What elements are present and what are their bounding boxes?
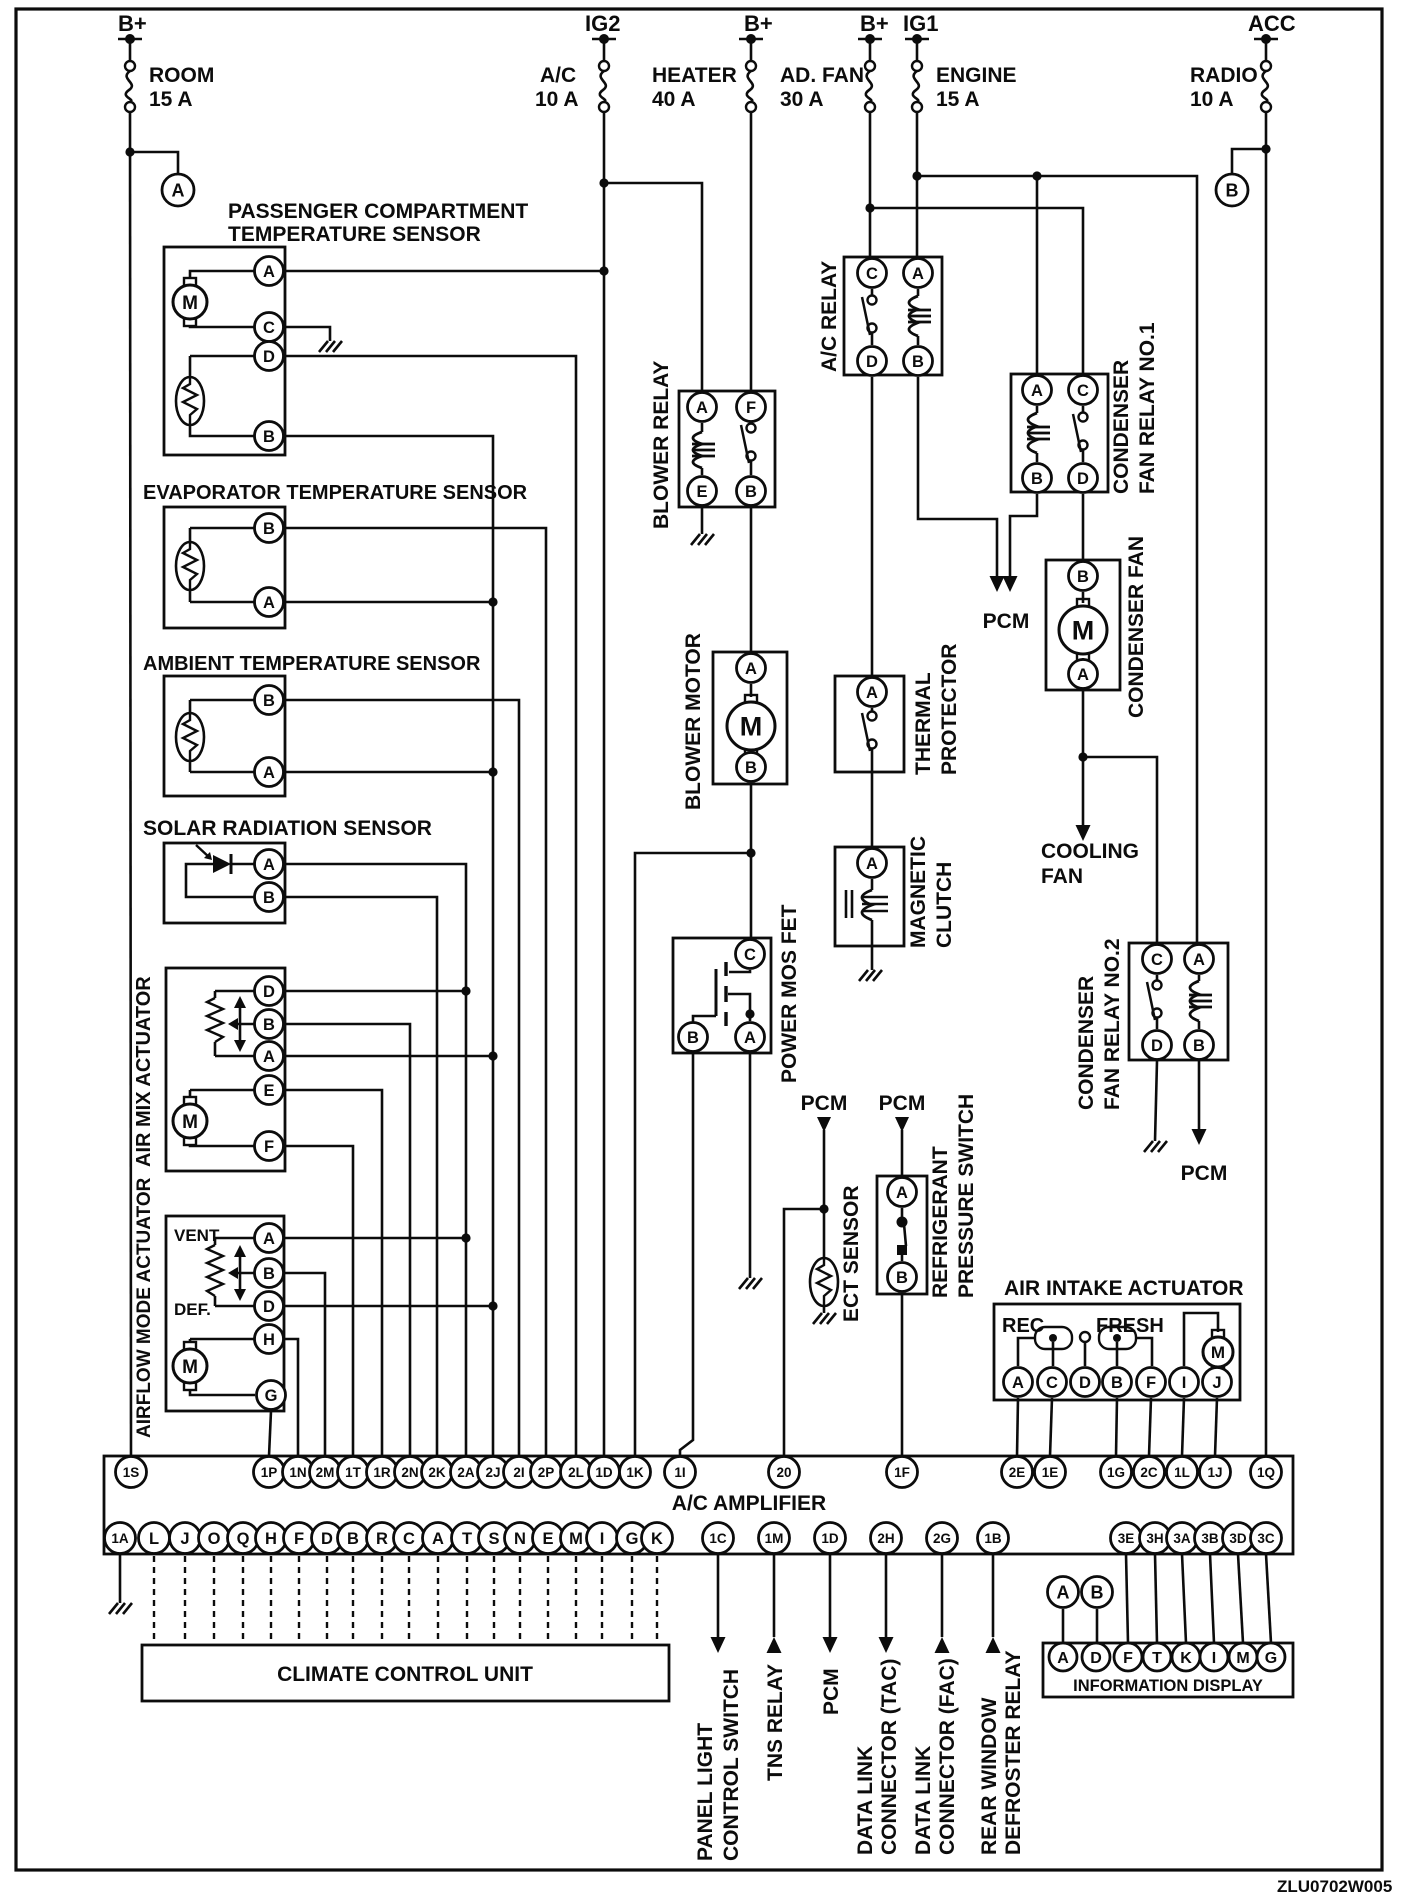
wire AD.FAN to condenser fan relay no.1 C <box>870 208 1083 374</box>
svg-text:B: B <box>745 759 757 777</box>
pin M A/C amplifier (bottom row) <box>561 1523 592 1554</box>
thermistor ECT sensor <box>810 1258 838 1306</box>
svg-text:AIRFLOW MODE ACTUATOR: AIRFLOW MODE ACTUATOR <box>134 1177 155 1438</box>
svg-text:2H: 2H <box>877 1531 894 1546</box>
svg-text:B: B <box>1077 568 1089 586</box>
node IG2 branch to blower relay <box>599 178 608 187</box>
wire motor to pin A <box>190 271 269 279</box>
node blower motor / 1K branch <box>746 848 755 857</box>
arrow from PCM (refrigerant) <box>895 1117 909 1132</box>
svg-text:A: A <box>1057 1582 1070 1602</box>
potentiometer air mix actuator <box>214 991 217 998</box>
pin 3H A/C amplifier (bottom row) <box>1140 1523 1171 1554</box>
switch condenser fan relay no.2 <box>1156 975 1159 981</box>
svg-text:1A: 1A <box>111 1531 129 1546</box>
wire blower motor B down to power MOS FET C <box>750 783 753 938</box>
wire branch to condenser fan relay no.2 C <box>1083 757 1157 943</box>
svg-text:A: A <box>1193 951 1205 969</box>
svg-text:R: R <box>376 1530 388 1548</box>
blower motor box <box>713 652 787 784</box>
svg-text:REC: REC <box>1002 1315 1044 1337</box>
FRESH position switch <box>1099 1327 1136 1349</box>
switch blower relay <box>750 423 753 424</box>
photodiode solar sensor <box>232 863 269 866</box>
pin 2E A/C amplifier (top row) <box>1002 1457 1033 1488</box>
pin A power MOS FET <box>736 1023 765 1052</box>
wire ACC down to pin 1Q <box>1265 112 1268 1456</box>
pin B A/C relay <box>904 347 933 376</box>
node air mix D junction <box>461 986 470 995</box>
svg-text:B: B <box>745 483 757 501</box>
A/C relay box <box>844 257 942 375</box>
svg-text:FAN RELAY NO.1: FAN RELAY NO.1 <box>1136 322 1159 494</box>
svg-text:PCM: PCM <box>1181 1162 1228 1185</box>
svg-text:EVAPORATOR TEMPERATURE SENSOR: EVAPORATOR TEMPERATURE SENSOR <box>143 482 528 504</box>
svg-text:2A: 2A <box>457 1465 475 1480</box>
svg-text:1S: 1S <box>123 1465 140 1480</box>
motor (aspirator) in passenger sensor <box>184 278 196 286</box>
svg-text:H: H <box>265 1530 277 1548</box>
node IG1 / condenser fan relay no.1 A <box>1032 171 1041 180</box>
node airflow A junction <box>461 1233 470 1242</box>
svg-text:E: E <box>263 1082 274 1100</box>
pin D A/C relay <box>858 347 887 376</box>
arrow to cooling fan <box>1082 820 1085 827</box>
svg-text:2L: 2L <box>568 1465 584 1480</box>
ground blower relay <box>691 534 714 545</box>
wire motor to pin C <box>190 325 269 327</box>
svg-text:AMBIENT TEMPERATURE SENSOR: AMBIENT TEMPERATURE SENSOR <box>143 653 481 675</box>
wire passenger C to ground <box>285 327 330 341</box>
pin 1N A/C amplifier (top row) <box>283 1457 314 1488</box>
svg-text:1G: 1G <box>1107 1465 1125 1480</box>
svg-text:A: A <box>1012 1374 1024 1392</box>
pin I information display <box>1200 1643 1228 1671</box>
svg-text:B: B <box>263 428 275 446</box>
coil A/C relay <box>917 289 920 296</box>
pin B condenser fan relay no.1 <box>1023 464 1052 493</box>
svg-text:A/C: A/C <box>540 64 576 87</box>
pin D condenser fan relay no.2 <box>1143 1031 1172 1060</box>
wire air intake C to pin 1E <box>1050 1398 1052 1456</box>
pin A magnetic clutch <box>858 849 887 878</box>
svg-text:1E: 1E <box>1042 1465 1059 1480</box>
wire airflow H to pin 1N <box>285 1339 298 1456</box>
svg-text:ROOM: ROOM <box>149 64 214 87</box>
wire branch to pin 1K <box>635 853 751 1456</box>
svg-text:A: A <box>696 399 708 417</box>
svg-text:B: B <box>687 1029 699 1047</box>
svg-text:3D: 3D <box>1229 1531 1247 1546</box>
pin A information display <box>1049 1643 1077 1671</box>
pin 1Q A/C amplifier (top row) <box>1251 1457 1282 1488</box>
svg-text:BLOWER MOTOR: BLOWER MOTOR <box>682 633 705 810</box>
pin C power MOS FET <box>736 940 765 969</box>
wire blower relay B to blower motor A <box>750 507 753 652</box>
ground passenger sensor <box>319 341 342 352</box>
svg-text:C: C <box>263 319 275 337</box>
wire to condenser fan relay no.1 A <box>1036 176 1039 374</box>
svg-text:M: M <box>1236 1650 1249 1667</box>
wires 3E-3C to information display <box>1126 1554 1128 1643</box>
arrow to PCM (A/C relay) <box>996 570 999 578</box>
wire CFR1 D to condenser fan B <box>1082 494 1085 560</box>
contact D air intake <box>1080 1332 1090 1342</box>
svg-text:K: K <box>1180 1650 1192 1667</box>
svg-text:PCM: PCM <box>820 1668 843 1715</box>
pin B blower motor <box>737 753 766 782</box>
wire 1C to panel light control switch <box>717 1554 720 1639</box>
pin 2I A/C amplifier (top row) <box>504 1457 535 1488</box>
pin 20 A/C amplifier (top row) <box>769 1457 800 1488</box>
wire airflow D to signal ground bus <box>285 1305 493 1308</box>
svg-text:D: D <box>1079 1374 1091 1392</box>
wire 1A to ground <box>119 1554 122 1603</box>
pin M information display <box>1229 1643 1257 1671</box>
svg-text:D: D <box>263 983 275 1001</box>
wire ambient A to signal ground bus <box>285 771 493 774</box>
pin D information display <box>1082 1643 1110 1671</box>
pin G A/C amplifier (bottom row) <box>617 1523 648 1554</box>
svg-text:A: A <box>172 180 185 200</box>
svg-text:2I: 2I <box>513 1465 524 1480</box>
pin B airflow mode <box>255 1259 284 1288</box>
svg-text:THERMAL: THERMAL <box>912 672 935 775</box>
dashed wires to climate control unit <box>153 1556 155 1645</box>
motor air intake actuator <box>1184 1313 1218 1366</box>
pin A evaporator sensor <box>255 588 284 617</box>
svg-text:2M: 2M <box>316 1465 335 1480</box>
air intake actuator box <box>994 1304 1240 1400</box>
svg-text:A: A <box>263 263 275 281</box>
ground A/C amplifier 1A <box>109 1603 132 1614</box>
svg-text:20: 20 <box>776 1465 791 1480</box>
svg-text:B: B <box>263 1016 275 1034</box>
svg-text:D: D <box>263 348 275 366</box>
pin 1P A/C amplifier (top row) <box>254 1457 285 1488</box>
pin 2P A/C amplifier (top row) <box>531 1457 562 1488</box>
svg-text:C: C <box>403 1530 415 1548</box>
svg-text:1R: 1R <box>373 1465 391 1480</box>
pin H airflow mode <box>255 1325 284 1354</box>
svg-text:D: D <box>1077 470 1089 488</box>
pin A blower motor <box>737 654 766 683</box>
pin 1E A/C amplifier (top row) <box>1035 1457 1066 1488</box>
svg-text:B: B <box>347 1530 359 1548</box>
svg-text:10 A: 10 A <box>1190 88 1234 111</box>
wire 1M from TNS relay <box>773 1554 776 1637</box>
wire solar B to pin 2K <box>285 897 437 1456</box>
wire 1D to PCM <box>829 1554 832 1639</box>
pin I air intake <box>1170 1368 1199 1397</box>
wire IG2 down to pin 1D <box>603 112 606 1456</box>
wire evaporator A to signal ground bus <box>285 601 493 604</box>
svg-text:F: F <box>1146 1374 1156 1392</box>
svg-text:1D: 1D <box>821 1531 839 1546</box>
pin B passenger sensor <box>255 422 284 451</box>
svg-text:DATA LINK: DATA LINK <box>854 1746 877 1855</box>
svg-text:A: A <box>263 856 275 874</box>
pin B A/C amplifier (bottom row) <box>338 1523 369 1554</box>
svg-text:F: F <box>746 399 756 417</box>
wire airflow B to pin 2M <box>285 1273 325 1456</box>
pin 1F A/C amplifier (top row) <box>887 1457 918 1488</box>
pin 2A A/C amplifier (top row) <box>451 1457 482 1488</box>
svg-text:E: E <box>542 1530 553 1548</box>
svg-text:N: N <box>514 1530 526 1548</box>
svg-text:D: D <box>321 1530 333 1548</box>
svg-text:M: M <box>182 1357 198 1378</box>
svg-text:F: F <box>294 1530 304 1548</box>
svg-text:B: B <box>912 353 924 371</box>
pin B air mix <box>255 1010 284 1039</box>
svg-text:T: T <box>462 1530 472 1548</box>
condenser fan relay no.1 box <box>1011 374 1108 492</box>
pin 3A A/C amplifier (bottom row) <box>1167 1523 1198 1554</box>
svg-text:1P: 1P <box>261 1465 278 1480</box>
coil magnetic clutch <box>871 879 874 890</box>
svg-text:C: C <box>1077 382 1089 400</box>
wire CFR2 D to ground <box>1155 1061 1157 1141</box>
pin 3C A/C amplifier (bottom row) <box>1251 1523 1282 1554</box>
node ACC branch to connector B <box>1261 144 1270 153</box>
svg-text:15 A: 15 A <box>936 88 980 111</box>
svg-text:A/C AMPLIFIER: A/C AMPLIFIER <box>672 1492 826 1515</box>
svg-text:A: A <box>866 855 878 873</box>
fuse RADIO 10A <box>1254 38 1278 41</box>
node air mix A junction <box>488 1051 497 1060</box>
svg-text:A: A <box>263 764 275 782</box>
wire air intake I to pin 1L <box>1182 1398 1184 1456</box>
wire A/C relay D to thermal protector <box>871 377 874 676</box>
magnetic clutch box <box>835 847 904 946</box>
svg-text:C: C <box>1046 1374 1058 1392</box>
svg-text:CONNECTOR (TAC): CONNECTOR (TAC) <box>878 1659 901 1855</box>
node IG2 / passenger sensor A <box>599 266 608 275</box>
wire A/C relay B to PCM <box>918 377 997 570</box>
wire passenger A to IG2 <box>285 270 604 273</box>
svg-text:AIR MIX ACTUATOR: AIR MIX ACTUATOR <box>133 976 155 1167</box>
svg-text:M: M <box>1211 1343 1225 1362</box>
svg-text:B: B <box>896 1269 908 1287</box>
REC position switch <box>1035 1327 1072 1349</box>
svg-text:1B: 1B <box>984 1531 1002 1546</box>
climate control unit box <box>142 1645 669 1701</box>
pin D air intake <box>1071 1368 1100 1397</box>
pin H A/C amplifier (bottom row) <box>256 1523 287 1554</box>
pin D air mix <box>255 977 284 1006</box>
wire to connector B <box>1232 149 1266 174</box>
thermistor passenger sensor <box>189 356 192 377</box>
svg-text:L: L <box>149 1530 159 1548</box>
evaporator temperature sensor box <box>164 507 285 628</box>
node ECT / pin 20 branch <box>819 1204 828 1213</box>
node junction ROOM/connector A <box>125 147 134 156</box>
wire branch to pin 20 <box>784 1209 824 1456</box>
pin D condenser fan relay no.1 <box>1069 464 1098 493</box>
pin 2G A/C amplifier (bottom row) <box>927 1523 958 1554</box>
pin B condenser fan <box>1069 562 1098 591</box>
pin 1B A/C amplifier (bottom row) <box>978 1523 1009 1554</box>
svg-text:G: G <box>626 1530 639 1548</box>
svg-text:AD. FAN: AD. FAN <box>780 64 864 87</box>
wire airflow G to pin 1P <box>269 1411 271 1456</box>
svg-text:2P: 2P <box>538 1465 555 1480</box>
pin S A/C amplifier (bottom row) <box>479 1523 510 1554</box>
pin A condenser fan <box>1069 660 1098 689</box>
node condenser fan branch <box>1078 752 1087 761</box>
wire IG1 to condenser fan relays <box>917 176 1197 943</box>
svg-text:PROTECTOR: PROTECTOR <box>938 644 961 775</box>
wire AD.FAN fuse to A/C relay C <box>869 112 872 257</box>
svg-text:D: D <box>1151 1037 1163 1055</box>
svg-text:REFRIGERANT: REFRIGERANT <box>929 1146 952 1298</box>
wire airflow A to 2A bus <box>285 1237 466 1240</box>
ground ECT sensor <box>813 1313 836 1324</box>
svg-text:ENGINE: ENGINE <box>936 64 1017 87</box>
svg-text:MAGNETIC: MAGNETIC <box>907 836 930 948</box>
potentiometer airflow mode actuator <box>214 1238 217 1245</box>
svg-text:IG2: IG2 <box>585 11 620 36</box>
pin F A/C amplifier (bottom row) <box>284 1523 315 1554</box>
wire solar A to pin 2A bus <box>285 864 466 1456</box>
svg-text:A: A <box>745 660 757 678</box>
svg-text:B+: B+ <box>744 11 773 36</box>
svg-text:40 A: 40 A <box>652 88 696 111</box>
svg-text:C: C <box>866 265 878 283</box>
pin B blower relay <box>737 477 766 506</box>
pin D airflow mode <box>255 1292 284 1321</box>
node ambient A junction <box>488 767 497 776</box>
pin A solar sensor <box>255 850 284 879</box>
svg-text:1T: 1T <box>345 1465 362 1480</box>
svg-text:1D: 1D <box>595 1465 613 1480</box>
svg-text:ZLU0702W005: ZLU0702W005 <box>1277 1877 1392 1896</box>
svg-text:C: C <box>1151 951 1163 969</box>
wiper arrow air mix <box>239 1004 242 1044</box>
svg-text:A: A <box>744 1029 756 1047</box>
pin 2K A/C amplifier (top row) <box>422 1457 453 1488</box>
svg-text:ACC: ACC <box>1248 11 1296 36</box>
wire air mix D to 2A bus <box>285 990 466 993</box>
svg-text:CONDENSER: CONDENSER <box>1075 976 1098 1110</box>
condenser fan box <box>1046 560 1120 690</box>
svg-text:3B: 3B <box>1201 1531 1219 1546</box>
pin N A/C amplifier (bottom row) <box>505 1523 536 1554</box>
svg-text:VENT: VENT <box>174 1226 220 1245</box>
svg-text:CONTROL SWITCH: CONTROL SWITCH <box>720 1669 743 1861</box>
pin Q A/C amplifier (bottom row) <box>228 1523 259 1554</box>
wire air mix A to signal ground bus <box>285 1055 493 1058</box>
fuse AD. FAN 30A <box>858 38 882 41</box>
pin F air mix <box>255 1132 284 1161</box>
wire condenser fan A down <box>1082 690 1085 820</box>
pin E blower relay <box>688 477 717 506</box>
pin G airflow mode <box>257 1381 286 1410</box>
fuse HEATER 40A <box>739 38 763 41</box>
motor airflow mode actuator <box>189 1339 192 1343</box>
pin F information display <box>1114 1643 1142 1671</box>
wire air mix F to pin 1T <box>285 1146 353 1456</box>
wire passenger D to pin 2L <box>285 356 576 1456</box>
svg-text:FAN RELAY NO.2: FAN RELAY NO.2 <box>1101 938 1124 1110</box>
pin 3B A/C amplifier (bottom row) <box>1195 1523 1226 1554</box>
wire IG1 fuse to A/C relay A <box>916 112 919 257</box>
pin F air intake <box>1137 1368 1166 1397</box>
ambient temperature sensor box <box>164 676 285 796</box>
svg-text:DEFROSTER RELAY: DEFROSTER RELAY <box>1002 1650 1025 1855</box>
svg-text:A: A <box>896 1184 908 1202</box>
svg-text:FAN: FAN <box>1041 865 1083 888</box>
svg-text:A: A <box>866 684 878 702</box>
svg-text:PCM: PCM <box>801 1092 848 1115</box>
svg-text:S: S <box>488 1530 499 1548</box>
svg-text:PRESSURE SWITCH: PRESSURE SWITCH <box>955 1094 978 1298</box>
airflow mode actuator box <box>166 1216 284 1411</box>
svg-text:TEMPERATURE SENSOR: TEMPERATURE SENSOR <box>228 223 481 246</box>
pin I A/C amplifier (bottom row) <box>587 1523 618 1554</box>
svg-text:3C: 3C <box>1257 1531 1275 1546</box>
svg-text:B: B <box>1111 1374 1123 1392</box>
svg-text:HEATER: HEATER <box>652 64 737 87</box>
wire CFR1 B to PCM <box>1010 494 1037 570</box>
svg-text:3E: 3E <box>1118 1531 1135 1546</box>
pin A ambient sensor <box>255 758 284 787</box>
svg-text:B: B <box>263 520 275 538</box>
svg-text:G: G <box>1265 1650 1277 1667</box>
wire air mix B to pin 2N <box>285 1024 410 1456</box>
motor condenser fan <box>1082 592 1085 603</box>
pin F blower relay <box>737 393 766 422</box>
wire PCM to refrigerant switch A <box>901 1130 904 1176</box>
wire refrigerant B to pin 1F <box>901 1293 904 1456</box>
wire blower relay E to ground <box>701 507 704 534</box>
wire passenger B to pin 2J (signal ground bus) <box>285 436 493 1456</box>
svg-text:30 A: 30 A <box>780 88 824 111</box>
svg-text:1Q: 1Q <box>1257 1465 1275 1480</box>
svg-text:E: E <box>696 483 707 501</box>
pin 1K A/C amplifier (top row) <box>620 1457 651 1488</box>
svg-text:1L: 1L <box>1174 1465 1190 1480</box>
svg-text:D: D <box>866 353 878 371</box>
switch contacts refrigerant pressure switch <box>901 1208 904 1218</box>
svg-text:CLIMATE CONTROL UNIT: CLIMATE CONTROL UNIT <box>277 1663 533 1686</box>
node airflow D junction <box>488 1301 497 1310</box>
node IG1 branch <box>912 171 921 180</box>
thermistor evaporator sensor <box>189 528 192 542</box>
ground condenser fan relay no.2 <box>1144 1141 1167 1152</box>
connector A (in-line) <box>162 174 194 206</box>
A/C amplifier box <box>104 1456 1293 1554</box>
svg-text:A: A <box>432 1530 444 1548</box>
thermal protector box <box>835 676 904 772</box>
pin L A/C amplifier (bottom row) <box>139 1523 170 1554</box>
svg-text:IG1: IG1 <box>903 11 938 36</box>
pin R A/C amplifier (bottom row) <box>367 1523 398 1554</box>
svg-text:1K: 1K <box>626 1465 644 1480</box>
power MOS FET box <box>673 938 771 1053</box>
svg-text:T: T <box>1152 1650 1162 1667</box>
svg-text:REAR WINDOW: REAR WINDOW <box>978 1697 1001 1855</box>
svg-text:1M: 1M <box>765 1531 784 1546</box>
wire ambient B to pin 2I <box>285 700 519 1456</box>
pin 1I A/C amplifier (top row) <box>665 1457 696 1488</box>
pin E air mix <box>255 1076 284 1105</box>
wire MOS FET A to ground <box>749 1053 752 1278</box>
svg-text:B: B <box>1226 180 1239 200</box>
svg-text:PANEL LIGHT: PANEL LIGHT <box>694 1723 717 1861</box>
pin 1D A/C amplifier (bottom row) <box>815 1523 846 1554</box>
